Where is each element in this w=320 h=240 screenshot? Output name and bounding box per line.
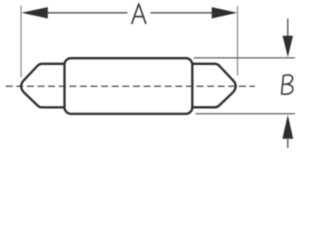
dimension line A left segment — [48, 12, 128, 14]
extension line right (dimension A) — [237, 6, 239, 75]
arrowhead A left — [22, 7, 48, 18]
arrowhead B top (points down) — [283, 36, 293, 58]
dimension B top arrow tail — [287, 19, 289, 37]
dimension B bottom arrow tail — [287, 139, 289, 148]
label B — [282, 75, 293, 94]
extension line left (dimension A) — [20, 6, 22, 78]
left end cap + cone tip — [21, 64, 64, 108]
glass body — [65, 58, 193, 114]
arrowhead B bottom (points up) — [282, 115, 293, 139]
dimension line A right segment — [150, 12, 212, 14]
arrowhead A right — [212, 7, 238, 18]
extension line bottom (dimension B) — [196, 113, 296, 115]
label A — [132, 4, 146, 23]
extension line top (dimension B) — [194, 57, 296, 59]
right end cap + cone tip — [192, 64, 235, 108]
centerline (dashed) — [6, 85, 255, 87]
